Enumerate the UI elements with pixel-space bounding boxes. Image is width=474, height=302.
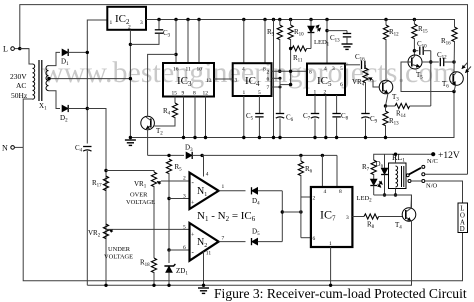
svg-text:N: N [2, 144, 8, 153]
wire IC7 pin3 output [352, 216, 364, 218]
wire N2 pin11 ground [202, 252, 205, 287]
svg-text:ZD1: ZD1 [176, 267, 188, 277]
svg-text:2: 2 [324, 90, 327, 96]
svg-text:VOLTAGE: VOLTAGE [126, 199, 155, 206]
svg-text:O: O [460, 213, 465, 220]
svg-text:3: 3 [332, 66, 335, 72]
diode D1 [62, 49, 87, 56]
resistor R8 [364, 214, 403, 219]
resistor R10 [288, 18, 293, 85]
svg-text:R7: R7 [362, 163, 370, 173]
svg-text:N2: N2 [197, 237, 207, 249]
svg-text:1: 1 [222, 184, 225, 190]
svg-text:L: L [3, 45, 8, 54]
svg-text:Figure 3: Receiver-cum-load Pr: Figure 3: Receiver-cum-load Protected Ci… [214, 286, 467, 301]
wire IC3 pin16 line [174, 18, 177, 63]
capacitor C12 [431, 58, 456, 66]
node L terminal [11, 47, 29, 51]
transistor T2 [141, 116, 155, 130]
wire T2 emitter to D3 line [147, 130, 149, 156]
diode D3 [186, 152, 202, 159]
diode D5 [252, 238, 283, 245]
diode D6 flyback [381, 154, 388, 195]
capacitor C4 [83, 147, 91, 286]
svg-text:5: 5 [258, 90, 261, 96]
svg-text:C5: C5 [246, 112, 254, 122]
svg-text:2: 2 [313, 196, 316, 202]
svg-text:-: - [192, 179, 195, 187]
wire IC4 pin4 [242, 18, 245, 63]
svg-text:VR2: VR2 [88, 229, 101, 239]
svg-text:R4: R4 [163, 107, 171, 117]
transformer X1 secondary [46, 66, 49, 91]
capacitor C7 [311, 95, 319, 139]
svg-text:N1 - N2 = IC6: N1 - N2 = IC6 [197, 210, 256, 223]
node R18 bottom [152, 284, 155, 287]
capacitor C13 [327, 31, 351, 44]
wire T5 base left [401, 62, 454, 92]
svg-text:7: 7 [222, 236, 225, 242]
diode D2 [62, 105, 87, 112]
svg-text:VR1: VR1 [134, 180, 147, 190]
svg-text:X1: X1 [39, 102, 47, 112]
svg-text:4: 4 [242, 67, 245, 73]
wire rectifier cathode rail [87, 20, 107, 144]
svg-text:1: 1 [314, 90, 317, 96]
wire D2 node to sense divider [87, 109, 106, 286]
svg-text:C9: C9 [370, 115, 378, 125]
svg-text:R14: R14 [396, 110, 406, 120]
svg-text:1: 1 [329, 241, 332, 247]
svg-text:7: 7 [267, 85, 270, 91]
LOAD box [458, 203, 468, 233]
svg-text:R12: R12 [389, 28, 399, 38]
svg-text:230V: 230V [10, 72, 27, 81]
node center tap join [129, 77, 132, 80]
wire T5 emitter to C10 line [422, 61, 431, 63]
IC4 box [233, 63, 272, 96]
wire IC3 pin10 line [197, 18, 200, 63]
svg-text:8: 8 [309, 70, 312, 76]
label LOAD [460, 206, 465, 234]
diode D4 [252, 187, 283, 194]
node R10 R11 [289, 47, 292, 50]
wire IC2 pin2 ground line [129, 30, 131, 138]
wire T4 collector [410, 195, 413, 208]
svg-text:3: 3 [183, 194, 186, 200]
svg-text:12: 12 [203, 91, 209, 97]
svg-text:D5: D5 [252, 228, 260, 238]
svg-text:VOLTAGE: VOLTAGE [104, 254, 133, 261]
svg-text:UNDER: UNDER [108, 246, 131, 253]
wire secondary bottom to D2 [49, 91, 61, 109]
svg-text:R18: R18 [140, 259, 150, 269]
relay armature [406, 168, 421, 177]
wire T6 emitter down [454, 85, 456, 91]
wire top border [20, 5, 468, 175]
wire IC3 pin9 [182, 97, 185, 140]
wire N1 output [219, 190, 246, 192]
wire T2 collector to pin16 [148, 54, 176, 116]
svg-text:R5: R5 [175, 163, 183, 173]
wire D3 junction to supply rail of comparators [202, 154, 337, 156]
wire secondary top to D1 [49, 52, 61, 65]
svg-text:3: 3 [140, 20, 143, 26]
wire N1 pin3 [169, 198, 190, 200]
node R6 top [299, 154, 302, 157]
wire IC3 pin8 [193, 97, 196, 140]
resistor R5 [166, 159, 171, 250]
wire L to primary [20, 49, 33, 64]
wire T4 emitter [411, 221, 413, 285]
wire C10 feedback [429, 51, 432, 106]
svg-text:IC7: IC7 [320, 208, 336, 223]
resistor R14 [386, 103, 431, 108]
wire N2 output [219, 241, 246, 243]
svg-text:5: 5 [340, 66, 343, 72]
wire IC ground bus [130, 92, 454, 138]
svg-text:R15: R15 [418, 25, 428, 35]
svg-text:16: 16 [173, 67, 179, 73]
transformer X1 primary [33, 64, 35, 99]
svg-text:4: 4 [324, 189, 327, 195]
svg-text:N/C: N/C [427, 158, 438, 165]
resistor R18 [151, 258, 156, 285]
wire IC3 pin12 [204, 97, 207, 140]
relay contact N/C [422, 165, 425, 168]
wire N2 pin6 [169, 249, 190, 251]
arrows into T6 [462, 63, 471, 73]
label UNDER VOLTAGE [104, 246, 133, 261]
wire ground rail B [87, 221, 411, 285]
wire IC7 pin2 stub [301, 196, 311, 198]
node D6 bottom [383, 193, 386, 196]
svg-text:2: 2 [128, 25, 131, 31]
relay contact N/O pair [408, 180, 425, 183]
node N terminal [11, 146, 23, 150]
zener ZD1 [164, 250, 175, 287]
svg-text:R6: R6 [305, 165, 313, 175]
svg-text:C4: C4 [75, 144, 83, 154]
svg-text:2: 2 [183, 176, 186, 182]
wire divider to VR1 [106, 171, 154, 173]
wire T5 emitter right [421, 61, 423, 64]
node D3 junction [200, 154, 203, 157]
wire T3 emitter [384, 93, 388, 107]
svg-text:15: 15 [172, 91, 178, 97]
node center tap [47, 77, 50, 80]
node +12V [431, 152, 435, 156]
wire center tap to IC2 ground line [49, 78, 130, 80]
LED1 [308, 18, 321, 49]
svg-text:3: 3 [346, 215, 349, 221]
svg-text:+: + [191, 233, 195, 239]
ground symbol N2 [198, 288, 209, 293]
node on R6 line [299, 210, 302, 213]
IC7 box [311, 187, 353, 247]
resistor R12 [383, 18, 388, 81]
wire coil bottom [394, 189, 397, 197]
LED2 [370, 179, 382, 195]
capacitor C3 [130, 18, 163, 45]
wire D4 D5 tie [281, 191, 283, 242]
svg-text:2: 2 [267, 70, 270, 76]
svg-text:11: 11 [206, 251, 212, 257]
svg-text:R16: R16 [441, 37, 451, 47]
node L junction [18, 47, 21, 50]
wire N1 pin4 supply [203, 155, 205, 176]
svg-text:R13: R13 [389, 117, 399, 127]
wire common to right border [425, 173, 468, 175]
svg-text:T2: T2 [156, 127, 163, 137]
transistor T3 [379, 80, 393, 94]
transformer X1 core [39, 60, 42, 101]
svg-text:D4: D4 [252, 197, 260, 207]
node T6 emitter [452, 90, 455, 93]
svg-text:6: 6 [313, 236, 316, 242]
svg-text:1: 1 [243, 90, 246, 96]
resistor R7 [371, 160, 376, 179]
svg-text:C8: C8 [341, 112, 349, 122]
preset VR4 [363, 65, 373, 114]
svg-text:1: 1 [110, 20, 113, 26]
resistor R16 [452, 25, 457, 72]
resistor R13 [383, 106, 388, 139]
svg-text:3: 3 [235, 78, 238, 84]
svg-text:N1: N1 [197, 186, 207, 198]
svg-text:L: L [460, 206, 464, 213]
wire IC7 pin6 stub [301, 237, 311, 239]
wire IC4 pin8 [263, 18, 266, 63]
svg-text:R10: R10 [294, 28, 304, 38]
wire coil top [394, 153, 397, 164]
wire IC3 pin15 to R4 [174, 97, 176, 104]
op-amp N1 [190, 173, 219, 209]
node ZD1 top / N2 pin6 [167, 248, 170, 251]
wire VR1 wiper to N1 pin2 [161, 180, 190, 182]
IC2 regulator box [107, 7, 146, 30]
IC3 box [163, 63, 214, 97]
svg-text:C10: C10 [417, 40, 427, 50]
wire IC7 pin8 [336, 155, 338, 187]
wire IC5 pin4 line with C13 tap [325, 18, 328, 64]
relay contact common [422, 173, 425, 176]
capacitor C9 [361, 114, 369, 140]
wire IC5 to C16 [345, 64, 360, 66]
capacitor C16 [362, 61, 366, 69]
svg-text:4: 4 [206, 172, 209, 178]
svg-text:+12V: +12V [438, 151, 460, 161]
wire D3 anode line [148, 154, 184, 156]
svg-text:R17: R17 [92, 179, 102, 189]
wire IC7 pin4 [321, 154, 324, 187]
wire plain rail to bus [272, 18, 275, 139]
wire IC3 pin11 line [186, 18, 189, 63]
node R5 top [167, 154, 170, 157]
svg-text:D3: D3 [185, 144, 193, 154]
svg-text:9: 9 [182, 91, 185, 97]
IC5 box [307, 64, 345, 96]
op-amp N2 [190, 223, 219, 261]
preset VR1 [151, 172, 161, 258]
transistor T6 [450, 72, 464, 86]
wire IC7 pin1 ground [329, 247, 332, 287]
ground symbol main [125, 136, 136, 146]
svg-text:D6: D6 [376, 160, 384, 170]
wire N to primary bottom [23, 99, 32, 147]
ground symbol C13 [342, 44, 353, 49]
svg-text:5: 5 [183, 224, 186, 230]
svg-text:C3: C3 [163, 29, 171, 39]
wire N down to load return rail [23, 147, 462, 280]
node D1 junction [86, 51, 89, 54]
svg-text:8: 8 [193, 91, 196, 97]
svg-text:C13: C13 [330, 34, 340, 44]
capacitor C5 [255, 96, 263, 139]
node C3 join [129, 43, 132, 46]
svg-text:6: 6 [340, 82, 343, 88]
svg-text:D2: D2 [60, 114, 68, 124]
wire IC3 pin13 to IC4 pin3 [214, 78, 233, 80]
svg-text:50Hz: 50Hz [11, 91, 28, 100]
relay RL1 coil box [389, 163, 407, 189]
wire +12V rail [146, 20, 455, 26]
wire relay supply [374, 154, 434, 160]
capacitor C10 [414, 47, 430, 55]
svg-text:C6: C6 [286, 114, 294, 124]
svg-text:T4: T4 [395, 221, 402, 231]
resistor R9 [277, 18, 282, 73]
capacitor C8 [332, 95, 340, 139]
preset VR2 [103, 224, 113, 239]
svg-text:10: 10 [197, 67, 203, 73]
resistor R6 [298, 155, 303, 237]
svg-text:-: - [192, 248, 195, 256]
wire IC4 pin2 to IC5 pin8 [272, 70, 308, 73]
transistor T4 [402, 208, 416, 222]
svg-text:N/O: N/O [426, 183, 438, 190]
wire VR4 wiper to T3 base [373, 80, 379, 87]
node sense divider top [104, 169, 107, 172]
svg-text:8: 8 [339, 189, 342, 195]
svg-text:C7: C7 [303, 112, 311, 122]
node VR2 bottom on rail [104, 284, 107, 287]
svg-text:AC: AC [16, 81, 26, 90]
svg-text:R8: R8 [367, 221, 375, 231]
node R5 to N1 pin3 [167, 197, 170, 200]
resistor R17 [103, 176, 108, 191]
label 230V AC 50Hz [10, 72, 28, 100]
svg-text:6: 6 [267, 77, 270, 83]
node D2 junction [86, 107, 89, 110]
label OVER VOLTAGE [126, 192, 155, 207]
wire IC4 pin6 pin7 tie [272, 77, 293, 114]
node D4 D5 mid [281, 210, 284, 213]
wire VR2 wiper to N2 pin5 [106, 228, 190, 230]
svg-text:D: D [460, 226, 465, 233]
node T5 collector C10 [413, 49, 416, 52]
wire relay bottom rail to T4 [374, 195, 412, 208]
wire IC5 pin2 ground [324, 95, 327, 139]
wire N/O to load [425, 181, 463, 203]
capacitor C6 [276, 114, 284, 140]
transistor T5 [408, 55, 422, 69]
wire to IC7 trigger [282, 211, 301, 213]
svg-text:OVER: OVER [130, 192, 148, 199]
svg-text:LED2: LED2 [357, 195, 373, 204]
resistor R4 [154, 103, 177, 126]
svg-text:6: 6 [183, 245, 186, 251]
resistor R15 [412, 18, 417, 56]
svg-text:4: 4 [324, 66, 327, 72]
resistor R11 [292, 46, 311, 51]
wire IC4 pin1 [242, 96, 245, 139]
svg-text:11: 11 [186, 67, 192, 73]
svg-text:13: 13 [206, 78, 212, 84]
svg-text:T3: T3 [392, 93, 399, 103]
